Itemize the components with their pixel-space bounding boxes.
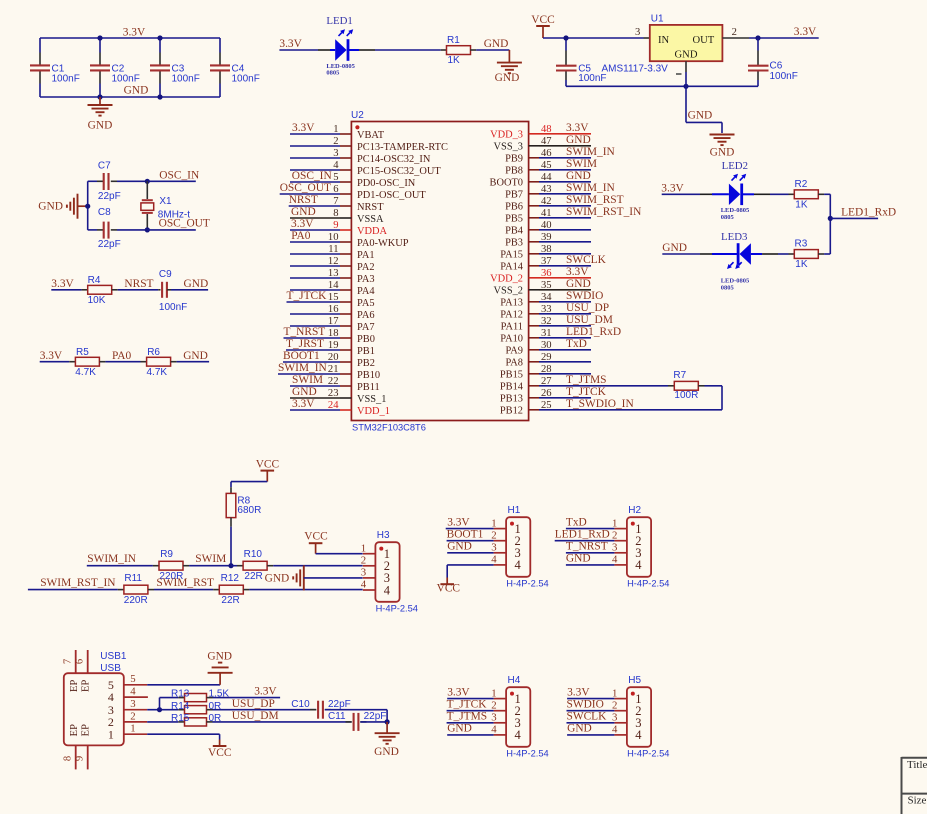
mcu U2 pin 30 PA9 [505,338,591,357]
svg-text:1: 1 [130,723,135,735]
LED LED1 (LED-0805) [326,15,355,77]
wire R10 to H3 pin 2 [273,565,363,567]
connector H2 H-4P-2.54 body [627,505,670,589]
svg-text:GND: GND [688,109,713,121]
svg-text:NRST: NRST [289,194,318,206]
svg-text:PB0: PB0 [357,334,375,345]
svg-text:22pF: 22pF [328,699,351,710]
connector H4 pin 1 [447,686,506,699]
svg-text:USU_DM: USU_DM [566,314,613,326]
svg-text:VSS_2: VSS_2 [494,286,523,297]
svg-text:SWCLK: SWCLK [567,711,608,723]
net USU_DP wire [207,698,317,710]
wire GND rail under U1 [566,84,758,89]
svg-text:3.3V: 3.3V [447,686,470,698]
connector H1 pin 2 [447,529,507,542]
connector H2 pin 2 [555,529,627,542]
svg-text:GND: GND [292,386,317,398]
wire H1 pin1 3.3V [446,528,494,530]
resistor R15 0R [171,713,221,726]
connector H2 pin 4 [566,553,627,566]
svg-text:PA9: PA9 [505,346,523,357]
svg-text:3.3V: 3.3V [279,38,302,50]
svg-text:39: 39 [541,232,552,243]
svg-text:100nF: 100nF [112,73,140,84]
mcu U2 pin 7 NRST [289,194,385,213]
svg-text:R15: R15 [171,713,190,724]
svg-text:OUT: OUT [693,35,715,46]
mcu U2 pin 27 PB14 [500,374,607,393]
svg-text:VCC: VCC [531,14,554,26]
svg-text:TxD: TxD [566,516,587,528]
svg-text:VSS_3: VSS_3 [494,142,523,153]
svg-text:5: 5 [130,673,135,685]
svg-text:9: 9 [333,220,338,231]
connector USB1 body [64,651,127,746]
svg-text:C9: C9 [159,269,172,280]
svg-text:H-4P-2.54: H-4P-2.54 [376,604,418,614]
mcu U2 pin 38 PA15 [500,244,591,261]
svg-text:2: 2 [612,529,617,541]
svg-text:VSS_1: VSS_1 [357,394,386,405]
mcu U2 pin 4 PC15-OSC32_OUT [290,160,441,177]
svg-text:T_JTMS: T_JTMS [566,374,607,386]
net label OSC_IN [145,170,199,184]
svg-text:13: 13 [328,268,339,279]
svg-text:H5: H5 [628,675,641,686]
svg-text:PB8: PB8 [505,166,523,177]
svg-text:1: 1 [108,727,114,741]
svg-text:6: 6 [74,659,85,664]
svg-text:PB6: PB6 [505,202,523,213]
svg-text:GND: GND [265,572,290,584]
svg-text:7: 7 [62,659,73,664]
net label GND (PA0 row) [183,350,208,362]
wire H1 pin3 GND [447,552,493,554]
svg-text:PB15: PB15 [500,370,523,381]
svg-text:OSC_OUT: OSC_OUT [280,182,331,194]
svg-text:GND: GND [88,120,113,132]
wire LED2 to R2 [742,193,795,195]
mcu U2 pin 9 VDDA [290,218,388,237]
svg-text:31: 31 [541,328,552,339]
mcu U2 pin 24 VDD_1 [290,398,390,417]
svg-text:H-4P-2.54: H-4P-2.54 [627,749,669,759]
svg-text:SWIM_RST_IN: SWIM_RST_IN [566,206,641,218]
ground symbol (H3 pin 3, sideways) [265,565,363,590]
svg-text:4: 4 [612,554,618,566]
wire H4 pin3 T_JTMS [447,722,494,724]
mcu U2 STM32F103C8T6 body [351,110,529,433]
svg-text:GND: GND [447,723,472,735]
svg-text:1: 1 [612,517,617,529]
svg-text:SWIM: SWIM [292,374,323,386]
net label 3.3V (LED1 row) [279,38,318,50]
net label GND (LED3 row) [662,242,700,254]
ground symbol (USB caps) [374,722,399,758]
svg-text:T_SWDIO_IN: T_SWDIO_IN [566,398,634,410]
svg-text:4: 4 [384,583,391,597]
svg-text:SWIM_IN: SWIM_IN [566,182,615,194]
mcu U2 pin 41 PB5 [505,206,641,225]
svg-text:42: 42 [541,196,552,207]
capacitor C4 100nF [210,38,260,97]
mcu U2 pin 14 PA4 [290,280,375,297]
svg-text:12: 12 [328,256,339,267]
svg-text:1: 1 [491,517,496,529]
mcu U2 pin 6 PD1-OSC_OUT [280,182,427,201]
connector H5 pin 3 [567,711,627,724]
svg-text:3: 3 [130,698,135,710]
svg-text:29: 29 [541,352,552,363]
svg-text:100R: 100R [674,390,698,401]
svg-text:VCC: VCC [256,459,279,471]
svg-text:R12: R12 [221,573,240,584]
svg-text:GND: GND [662,242,687,254]
resistor R2 1K [794,179,818,210]
svg-text:PA1: PA1 [357,250,375,261]
mcu U2 pin 36 VDD_2 [490,266,591,285]
svg-text:GND: GND [38,201,63,213]
connector H2 pin 1 [566,516,627,529]
wire C10 to junction [325,710,387,722]
svg-text:4.7K: 4.7K [147,367,168,378]
wire U1 GND pin down [685,61,687,86]
svg-text:1: 1 [333,124,338,135]
svg-text:PB11: PB11 [357,382,380,393]
wire H5 pin4 GND [567,734,614,736]
mcu U2 pin 5 PD0-OSC_IN [290,170,416,189]
svg-text:3.3V: 3.3V [566,266,589,278]
svg-text:PA15: PA15 [500,250,523,261]
svg-text:VCC: VCC [437,582,460,594]
net label SWIM_RST_IN wire [28,577,118,589]
connector USB1 pin 5 stub [124,673,147,685]
svg-text:LED-0805: LED-0805 [721,207,750,214]
svg-text:3: 3 [612,542,617,554]
svg-text:46: 46 [541,148,552,159]
svg-text:PA0-WKUP: PA0-WKUP [357,238,409,249]
svg-text:30: 30 [541,340,552,351]
svg-text:PB9: PB9 [505,154,523,165]
svg-text:R14: R14 [171,701,190,712]
mcu U2 pin 12 PA2 [290,256,375,273]
svg-text:36: 36 [541,268,552,279]
svg-text:PC13-TAMPER-RTC: PC13-TAMPER-RTC [357,142,448,153]
connector H3 pin 3 [361,567,376,579]
capacitor C3 100nF [150,38,200,97]
svg-text:0805: 0805 [721,285,735,292]
svg-text:U1: U1 [651,14,664,25]
svg-text:GND: GND [291,206,316,218]
svg-text:GND: GND [183,350,208,362]
svg-text:GND: GND [495,72,520,84]
svg-text:GND: GND [566,278,591,290]
svg-text:R6: R6 [147,347,160,358]
ground symbol (U1) [710,135,735,159]
mcu U2 pin 20 PB2 [283,350,375,369]
svg-text:T_JTCK: T_JTCK [566,386,607,398]
connector H5 pin 2 [567,699,627,712]
wire VCC to R8 [231,482,267,494]
svg-text:3: 3 [491,542,496,554]
svg-text:PB13: PB13 [500,394,523,405]
svg-text:USB1: USB1 [100,651,127,662]
svg-text:LED1_RxD: LED1_RxD [841,206,896,218]
LED LED3 (LED-0805) [700,231,751,291]
regulator U1 AMS1117-3.3V [602,14,723,75]
ground symbol (crystal, sideways) [38,194,87,219]
connector H4 pin 3 [447,711,507,724]
connector H5 H-4P-2.54 body [627,675,670,759]
svg-text:1: 1 [612,687,617,699]
wire H4 pin2 T_JTCK [447,710,494,712]
capacitor C7 22pF [88,160,148,201]
connector USB1 pin 7 (shield) [62,650,75,673]
svg-text:PA10: PA10 [500,334,523,345]
svg-text:22pF: 22pF [364,711,387,722]
svg-text:LED1_RxD: LED1_RxD [566,326,621,338]
svg-text:45: 45 [541,160,552,171]
connector H5 pin 4 [567,723,627,736]
svg-text:STM32F103C8T6: STM32F103C8T6 [352,423,426,433]
net label GND (NRST row) [184,278,209,290]
wire LED3 to R3 [751,253,795,255]
svg-text:U2: U2 [351,110,364,121]
svg-text:100nF: 100nF [770,71,798,82]
svg-text:C11: C11 [328,711,346,722]
svg-text:VDDA: VDDA [357,226,388,237]
svg-text:22R: 22R [244,571,262,582]
mcu U2 pin 46 PB9 [505,146,615,165]
svg-text:LED3: LED3 [721,231,747,243]
wire USB1 pin2 D- to R15 [147,721,184,723]
capacitor C8 22pF [88,207,148,250]
wire R2 to junction [818,193,830,195]
capacitor C6 100nF [748,38,798,86]
svg-text:15: 15 [328,292,339,303]
svg-text:PA0: PA0 [291,230,311,242]
connector H4 H-4P-2.54 body [506,675,549,759]
svg-text:PB1: PB1 [357,346,375,357]
svg-text:C8: C8 [98,207,111,218]
svg-text:25: 25 [541,400,552,411]
svg-text:2: 2 [361,555,366,567]
svg-text:Size: Size [908,794,927,806]
net label 3.3V (LED2 row) [661,182,700,194]
svg-text:R9: R9 [160,549,173,560]
wire LED1 to R1 [348,49,447,51]
svg-text:33: 33 [541,304,552,315]
svg-text:PA4: PA4 [357,286,375,297]
svg-text:OSC_OUT: OSC_OUT [159,218,210,230]
mcu U2 pin 48 VDD_3 [490,122,591,141]
svg-text:R5: R5 [76,347,89,358]
wire H5 pin2 SWDIO [567,710,615,712]
svg-text:VSSA: VSSA [357,214,384,225]
wire H2 pin1 TxD [566,528,615,530]
resistor R7 100R [591,370,698,401]
svg-text:GND: GND [567,723,592,735]
wire R1 to GND [470,38,509,50]
mcu U2 pin 44 BOOT0 [490,170,591,189]
connector H1 pin 4 [491,554,506,566]
svg-text:GND: GND [124,85,149,97]
svg-text:1K: 1K [448,55,461,66]
svg-text:3: 3 [612,712,617,724]
svg-text:SWCLK: SWCLK [566,254,607,266]
svg-text:38: 38 [541,244,552,255]
wire 3.3V to LED1 [318,49,335,51]
svg-text:7: 7 [333,196,338,207]
mcu U2 pin 3 PC14-OSC32_IN [290,148,431,165]
svg-text:9: 9 [74,756,85,761]
svg-text:2: 2 [612,699,617,711]
svg-text:PB5: PB5 [505,214,523,225]
svg-text:GND: GND [207,651,232,663]
svg-text:R2: R2 [795,179,808,190]
mcu U2 pin 34 PA13 [500,290,603,309]
svg-text:20: 20 [328,352,339,363]
svg-text:22pF: 22pF [98,239,121,250]
LED LED2 (LED-0805) [700,160,750,221]
svg-text:220R: 220R [124,595,148,606]
connector H5 pin 1 [567,686,627,699]
wire R7 to T_SWDIO_IN loop [591,386,722,410]
svg-text:LED2: LED2 [722,160,748,172]
svg-text:2: 2 [333,136,338,147]
svg-text:PA6: PA6 [357,310,375,321]
mcu U2 pin 26 PB13 [500,386,607,405]
svg-text:40: 40 [541,220,552,231]
svg-text:0805: 0805 [326,70,340,77]
svg-text:BOOT0: BOOT0 [490,178,523,189]
svg-text:4: 4 [515,728,522,742]
connector H1 H-4P-2.54 body [506,505,549,589]
connector USB1 pin 2 stub [124,710,147,722]
svg-text:44: 44 [541,172,552,183]
svg-text:SWIM_RST: SWIM_RST [156,577,214,589]
connector USB1 pin 4 stub [124,686,148,698]
svg-text:22: 22 [328,376,339,387]
capacitor C1 100nF [30,38,80,97]
resistor R6 4.7K [141,347,210,378]
svg-text:C10: C10 [291,699,310,710]
svg-text:6: 6 [333,184,338,195]
svg-text:680R: 680R [237,505,261,516]
capacitor C9 100nF [158,269,208,313]
wire C11 to junction [360,719,389,724]
wire H5 pin1 3.3V [567,698,614,700]
svg-text:2: 2 [130,710,135,722]
svg-text:T_NRST: T_NRST [566,541,608,553]
connector USB1 pin 6 (shield) [74,650,87,673]
svg-text:18: 18 [328,328,339,339]
power symbol VCC (regulator input) [531,14,554,38]
mcu U2 pin 15 PA5 [287,290,375,309]
svg-text:35: 35 [541,280,552,291]
mcu U2 pin 10 PA0-WKUP [290,230,409,249]
svg-text:4.7K: 4.7K [75,367,96,378]
mcu U2 pin 40 PB4 [505,220,591,237]
svg-text:10K: 10K [88,295,106,306]
svg-text:1: 1 [491,687,496,699]
power symbol VCC (H1 pin 4, inverted) [437,578,460,595]
svg-text:R11: R11 [124,573,142,584]
svg-text:27: 27 [541,376,552,387]
svg-text:SWDIO: SWDIO [566,290,603,302]
wire H2 pin3 T_NRST [566,552,615,554]
net SWIM wire and junction [189,553,237,568]
svg-text:3: 3 [333,148,338,159]
svg-text:3: 3 [635,27,640,38]
svg-text:SWIM_IN: SWIM_IN [566,146,615,158]
resistor R3 1K [794,239,818,270]
svg-text:PA7: PA7 [357,322,375,333]
svg-text:PD0-OSC_IN: PD0-OSC_IN [357,178,416,189]
resistor R14 0R [171,701,221,714]
svg-text:3.3V: 3.3V [567,686,590,698]
wire USB1 pin5 to GND [147,684,220,686]
svg-text:3.3V: 3.3V [566,122,589,134]
svg-text:PC14-OSC32_IN: PC14-OSC32_IN [357,154,431,165]
svg-text:4: 4 [130,686,136,698]
connector USB1 pin 8 (shield) [62,745,75,769]
svg-text:H2: H2 [628,505,641,516]
svg-text:GND: GND [566,134,591,146]
svg-text:R3: R3 [795,239,808,250]
svg-text:22R: 22R [221,595,239,606]
svg-text:5: 5 [333,172,338,183]
svg-text:USB: USB [100,663,121,674]
crystal X1 8MHz [141,181,190,230]
svg-text:VCC: VCC [304,530,327,542]
net 3.3V rail (top of C1-C4 bank) [40,26,220,38]
wire H1 pin4 to VCC [447,565,493,578]
mcu U2 pin 19 PB1 [286,338,375,357]
wire R3 to junction [818,253,830,255]
svg-text:34: 34 [541,292,552,303]
svg-text:PA13: PA13 [500,298,523,309]
svg-text:26: 26 [541,388,552,399]
resistor R4 10K [82,275,118,306]
svg-text:NRST: NRST [124,278,153,290]
svg-text:1K: 1K [795,199,808,210]
resistor R13 1.5K [171,689,229,702]
svg-text:EP: EP [81,680,92,692]
svg-text:10: 10 [328,232,339,243]
svg-text:IN: IN [658,35,670,46]
svg-text:PB14: PB14 [500,382,524,393]
svg-text:GND: GND [566,553,591,565]
svg-text:VCC: VCC [208,747,231,759]
svg-text:PA8: PA8 [505,358,523,369]
svg-text:48: 48 [541,124,552,135]
mcu U2 pin 43 PB7 [505,182,615,201]
svg-text:4: 4 [491,554,497,566]
svg-text:LED1: LED1 [326,15,352,27]
svg-text:USU_DM: USU_DM [232,710,279,722]
mcu U2 pin 2 PC13-TAMPER-RTC [290,136,448,153]
svg-text:3.3V: 3.3V [292,122,315,134]
svg-text:100nF: 100nF [52,73,80,84]
svg-text:AMS1117-3.3V: AMS1117-3.3V [602,64,669,75]
svg-text:SWIM_IN: SWIM_IN [278,362,327,374]
connector USB1 pin 1 stub [124,723,147,735]
svg-text:BOOT1: BOOT1 [283,350,320,362]
wire H2 pin2 LED1_RxD [555,540,615,542]
svg-text:H-4P-2.54: H-4P-2.54 [506,579,548,589]
